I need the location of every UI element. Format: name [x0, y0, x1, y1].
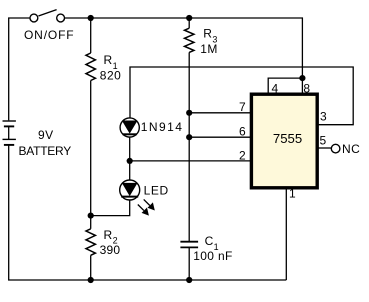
NC terminal circle	[331, 144, 340, 153]
capacitor C1	[180, 242, 198, 280]
svg-text:ON/OFF: ON/OFF	[24, 28, 74, 42]
node LED-R2 junction	[88, 213, 94, 219]
LED light arrows	[138, 199, 155, 215]
svg-text:390: 390	[100, 243, 121, 257]
wire top rail left segment	[9, 18, 30, 120]
node R1 top junction	[88, 15, 94, 21]
wire top rail right segment	[65, 18, 303, 78]
wire pin1 to ground rail	[285, 189, 287, 281]
svg-text:1: 1	[289, 187, 296, 201]
svg-text:6: 6	[239, 125, 246, 139]
node R2 ground junction	[88, 277, 94, 283]
node pin8 supply junction	[299, 75, 305, 81]
resistor R3	[185, 18, 194, 241]
svg-text:BATTERY: BATTERY	[19, 144, 72, 158]
resistor R1	[86, 18, 95, 216]
node C1 ground junction	[186, 277, 192, 283]
node R3 top junction	[186, 15, 192, 21]
svg-text:820: 820	[100, 69, 122, 83]
op-amp/timer IC U1 7555 body	[251, 94, 317, 188]
svg-text:8: 8	[303, 81, 310, 95]
svg-text:1M: 1M	[200, 42, 217, 56]
svg-text:5: 5	[320, 134, 327, 148]
svg-text:7555: 7555	[273, 131, 302, 146]
wire pin3 to diode anode	[130, 67, 353, 125]
svg-text:NC: NC	[342, 142, 360, 156]
battery B1 9V	[3, 121, 16, 145]
svg-text:100 nF: 100 nF	[193, 249, 232, 263]
svg-text:7: 7	[239, 100, 246, 114]
wire pin7	[189, 112, 252, 114]
LED D2	[120, 180, 140, 200]
svg-text:2: 2	[239, 149, 246, 163]
switch SW1	[30, 10, 65, 22]
wire LED cathode to R2 top junction	[91, 200, 130, 216]
wire pin6	[189, 136, 252, 138]
node diode-LED junction	[127, 158, 133, 164]
node pin7 junction	[186, 110, 192, 116]
wire diode cathode to LED anode	[129, 137, 131, 180]
wire pin4-pin8 link	[268, 78, 302, 94]
resistor R2	[86, 216, 95, 280]
diode D1 1N914	[120, 118, 139, 137]
wire pin5 to NC	[319, 147, 332, 149]
wire left rail bottom segment	[9, 145, 287, 280]
svg-text:4: 4	[272, 81, 279, 95]
svg-text:3: 3	[320, 110, 327, 124]
svg-text:1N914: 1N914	[141, 120, 184, 134]
wire pin2	[130, 160, 252, 162]
svg-text:LED: LED	[144, 183, 169, 197]
svg-text:9V: 9V	[38, 128, 53, 142]
node pin6 junction	[186, 134, 192, 140]
